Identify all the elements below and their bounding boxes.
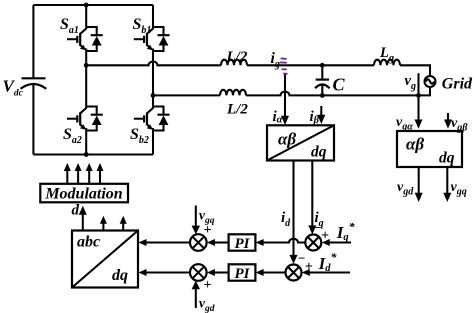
arrow: gate signal 4 xyxy=(99,170,101,184)
wire: leg a xyxy=(85,5,87,155)
svg-text:L/2: L/2 xyxy=(226,102,248,118)
node: C tap on phase A xyxy=(320,63,325,68)
inductor L/2 bottom xyxy=(220,90,246,96)
wire: bottom PI output to L2 xyxy=(214,271,229,273)
svg-text:PI: PI xyxy=(235,236,251,252)
capacitor C xyxy=(321,65,323,95)
block: Modulation xyxy=(40,184,128,203)
inductor L/2 top xyxy=(221,60,247,66)
node: leg a midpoint xyxy=(84,63,89,68)
wire: id line down to lower sum xyxy=(292,161,294,257)
wire: vgd output arrow xyxy=(418,167,420,194)
grid source circle xyxy=(425,76,436,87)
wire: bottom DC rail xyxy=(33,153,153,155)
node: bottom rail / leg a junction xyxy=(84,152,89,157)
current sensor marks (purple) on ig xyxy=(281,59,287,74)
transistor Sb2 xyxy=(134,107,170,131)
summing junction L1 (vgq feedforward) xyxy=(190,234,207,251)
wire: R1 output to PI with hop over id xyxy=(263,239,305,243)
wire: phase B line with hop over ia tap xyxy=(153,87,430,95)
wire: ia tap arrow with hop over phase B xyxy=(284,75,286,118)
node: leg b midpoint xyxy=(151,93,156,98)
svg-text:abc: abc xyxy=(77,234,100,251)
wire: top DC rail xyxy=(33,4,153,6)
transistor Sa2 xyxy=(67,107,103,131)
wire: R2 output to PI xyxy=(263,271,286,273)
arrow: gate signal 3 xyxy=(88,170,90,184)
svg-text:αβ: αβ xyxy=(278,130,296,149)
capacitor Vdc xyxy=(22,77,46,79)
wire: left DC-link branch with Vdc xyxy=(32,5,34,155)
wire: vgq arrow into L1 xyxy=(195,206,197,228)
block: PI top xyxy=(229,234,256,250)
wire: L1 output to abc/dq block xyxy=(146,241,191,243)
svg-text:dq: dq xyxy=(112,267,128,284)
summing junction L2 (vgd feedforward) xyxy=(190,264,207,281)
wire: vga tap arrow xyxy=(417,73,419,121)
wire: iq arrow down to upper sum xyxy=(311,161,313,228)
summing junction R1 (iq) xyxy=(305,235,321,251)
arrow: gate signal 1 xyxy=(66,170,68,184)
svg-text:L/2: L/2 xyxy=(226,49,248,65)
block: abc/dq xyxy=(72,231,138,288)
wire: phase A line with hop over leg b xyxy=(86,62,430,76)
wire: vgd arrow into L2 xyxy=(195,288,197,308)
block: current ab->dq xyxy=(267,125,334,160)
wire: vgq output arrow xyxy=(446,167,448,194)
wire: ib tap arrow xyxy=(320,106,322,117)
svg-text:αβ: αβ xyxy=(406,135,424,154)
svg-text:Grid: Grid xyxy=(442,76,473,93)
wire: Id* reference arrow xyxy=(309,271,350,273)
arrow: abc output c xyxy=(122,223,124,231)
wire: Iq* reference arrow xyxy=(329,241,351,243)
wire: top PI output to L1 xyxy=(214,241,229,243)
svg-text:C: C xyxy=(333,75,346,95)
svg-text:+: + xyxy=(204,278,212,293)
arrow: gate signal 2 xyxy=(77,170,79,184)
arrow: abc output b xyxy=(102,223,104,231)
wire: d arrow from abc/dq to Modulation xyxy=(82,213,84,231)
svg-text:PI: PI xyxy=(235,266,251,282)
wire: vgb arrow xyxy=(447,113,449,121)
block: grid voltage ab->dq xyxy=(397,131,462,167)
svg-text:d: d xyxy=(72,203,80,219)
transistor Sa1 xyxy=(67,27,103,51)
wire: leg b xyxy=(152,5,154,155)
wire: L2 output to abc/dq block xyxy=(146,271,191,273)
node: vg tap on phase B xyxy=(416,93,421,98)
summing junction R2 (id) xyxy=(286,265,302,281)
svg-text:dq: dq xyxy=(311,144,327,161)
inductor Lg xyxy=(374,60,400,66)
block: PI bottom xyxy=(229,264,256,280)
svg-text:dq: dq xyxy=(439,150,455,167)
node: top rail / leg a junction xyxy=(84,3,89,8)
svg-text:Modulation: Modulation xyxy=(44,186,122,203)
transistor Sb1 xyxy=(134,27,170,51)
node: C tap on phase B xyxy=(320,93,325,98)
